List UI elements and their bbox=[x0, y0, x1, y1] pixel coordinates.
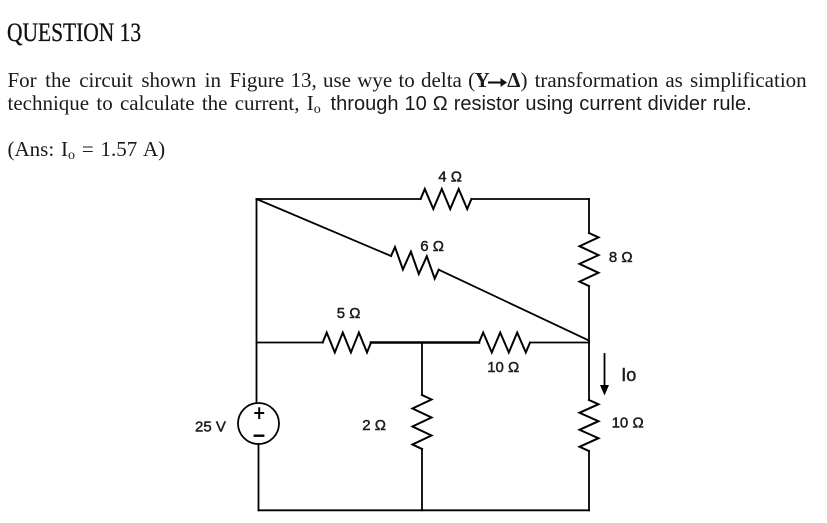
svg-text:8 Ω: 8 Ω bbox=[609, 249, 633, 266]
svg-text:Io: Io bbox=[621, 365, 636, 385]
resistor 10 ohm right bbox=[580, 400, 599, 451]
label 6 ohm bbox=[420, 238, 444, 255]
voltage source 25V circle bbox=[238, 403, 279, 444]
label 10 ohm right bbox=[612, 415, 644, 432]
wire 2ohm branch upper bbox=[421, 343, 423, 396]
wire diagonal upper bbox=[257, 199, 392, 256]
wire top-left to 4ohm bbox=[257, 198, 421, 200]
wire bottom bbox=[259, 509, 590, 511]
resistor 10 ohm middle bbox=[479, 333, 530, 353]
wire middle center (bold) bbox=[371, 341, 479, 344]
current arrow Io bbox=[600, 354, 609, 396]
resistor 6 ohm bbox=[391, 247, 439, 279]
svg-text:5 Ω: 5 Ω bbox=[337, 305, 361, 322]
resistor 5 ohm bbox=[323, 333, 371, 353]
svg-text:25 V: 25 V bbox=[195, 419, 226, 436]
answer line bbox=[8, 139, 166, 160]
minus sign bbox=[254, 435, 265, 437]
wire right rail middle bbox=[588, 286, 590, 400]
label Io bbox=[621, 365, 636, 385]
wire middle-left bbox=[257, 342, 323, 344]
label 25 V bbox=[195, 419, 226, 436]
resistor 4 ohm bbox=[421, 189, 472, 209]
wire 4ohm to top-right bbox=[471, 198, 589, 200]
resistor 8 ohm bbox=[580, 233, 599, 286]
label 4 ohm bbox=[438, 169, 462, 186]
label 2 ohm bbox=[362, 417, 386, 434]
wire right rail upper bbox=[588, 199, 590, 233]
svg-text:10 Ω: 10 Ω bbox=[487, 359, 519, 376]
plus sign bbox=[254, 407, 264, 419]
resistor 2 ohm bbox=[413, 395, 432, 449]
label 10 ohm middle bbox=[487, 359, 519, 376]
svg-text:6 Ω: 6 Ω bbox=[420, 238, 444, 255]
svg-text:10 Ω: 10 Ω bbox=[612, 415, 644, 432]
label 5 ohm bbox=[337, 305, 361, 322]
wire left rail upper bbox=[256, 199, 258, 403]
wire 2ohm branch lower bbox=[421, 449, 423, 510]
wire middle-right bbox=[530, 342, 589, 344]
wire right rail lower bbox=[588, 451, 590, 510]
paragraph line 1 bbox=[8, 70, 807, 91]
paragraph line 2 bbox=[8, 93, 752, 114]
svg-text:4 Ω: 4 Ω bbox=[438, 169, 462, 186]
title QUESTION 13 bbox=[7, 20, 141, 46]
label 8 ohm bbox=[609, 249, 633, 266]
svg-text:2 Ω: 2 Ω bbox=[362, 417, 386, 434]
wire left rail lower bbox=[258, 444, 260, 510]
wire diagonal lower bbox=[439, 270, 589, 341]
